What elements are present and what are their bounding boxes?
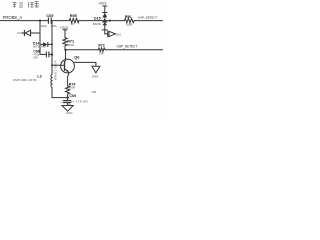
svg-text:CAP_DETECT: CAP_DETECT — [117, 44, 138, 48]
node clamp junction — [104, 19, 106, 21]
wire right vertical from C65 down — [51, 21, 53, 75]
svg-text:D13: D13 — [17, 31, 23, 35]
resistor R56 — [125, 19, 135, 23]
svg-text:C65: C65 — [46, 14, 53, 18]
svg-text:50V: 50V — [33, 56, 38, 60]
svg-text:R56: R56 — [125, 15, 132, 19]
capacitor C68 — [40, 52, 52, 57]
wire base of Q6 — [52, 64, 64, 66]
svg-text:MMBT3904: MMBT3904 — [53, 60, 57, 80]
svg-text:C0G: C0G — [51, 24, 57, 28]
capacitor C69 — [64, 98, 71, 106]
net flag — [105, 31, 116, 37]
ground right of Q6 — [92, 66, 100, 73]
node D14 cathode junction — [51, 43, 53, 45]
svg-text:100p: 100p — [41, 24, 48, 28]
svg-text:100n 16V X7R WS: 100n 16V X7R WS — [60, 99, 88, 103]
diode D16 lower clamp — [102, 22, 107, 34]
power +3V3 at R71 — [63, 30, 67, 38]
svg-text:R72: R72 — [98, 44, 104, 48]
wire vertical to D13/D14 — [39, 21, 41, 55]
wire collector node to R72 — [66, 49, 99, 51]
svg-text:+3V3: +3V3 — [98, 2, 106, 6]
diode D13 — [22, 30, 40, 36]
node base junction — [51, 64, 53, 66]
resistor R72 — [98, 48, 105, 52]
svg-text:PROBE_A: PROBE_A — [3, 15, 23, 20]
resistor R55 — [69, 18, 79, 22]
diode D15 upper clamp — [102, 13, 107, 21]
svg-text:910R: 910R — [67, 43, 74, 47]
svg-text:BAV99: BAV99 — [93, 22, 102, 26]
node C68 junction — [51, 54, 53, 56]
svg-text:+3V3: +3V3 — [60, 26, 68, 30]
svg-text:1K: 1K — [70, 22, 74, 26]
transistor Q6 — [61, 50, 75, 86]
svg-text:BAT54SWF: BAT54SWF — [33, 45, 47, 49]
resistor R74 — [66, 86, 70, 98]
svg-text:D16: D16 — [116, 33, 122, 37]
node junction at C65 left — [39, 20, 41, 22]
inductor L3 — [51, 74, 52, 87]
wire R72 to CAP_DETECT right edge — [105, 49, 162, 51]
wire R55 to clamp node — [79, 20, 125, 22]
label 汉字 note — [13, 2, 39, 8]
node second junction — [109, 20, 111, 22]
svg-text:200R: 200R — [69, 86, 75, 90]
wire main PROBE_A net — [0, 20, 48, 22]
resistor R71 — [63, 38, 67, 50]
capacitor C65 — [48, 18, 51, 24]
svg-text:100R: 100R — [126, 22, 133, 26]
svg-text:GND: GND — [66, 111, 72, 115]
svg-text:50V: 50V — [67, 103, 72, 106]
node emitter bottom junction — [66, 96, 68, 98]
svg-text:10K: 10K — [99, 52, 104, 56]
wire L3 bottom to emitter node — [52, 87, 68, 97]
svg-text:GND: GND — [92, 75, 98, 79]
svg-text:D15: D15 — [94, 17, 101, 21]
node collector junction — [64, 49, 66, 51]
svg-text:C69: C69 — [69, 94, 76, 98]
ground below C69 — [62, 106, 73, 112]
svg-text:CAP_DETECT: CAP_DETECT — [138, 16, 157, 20]
wire C65 to R55 — [51, 20, 69, 22]
wire Q6 right to GND — [74, 62, 96, 66]
wire R56 to CAP_DETECT edge — [134, 20, 162, 22]
svg-text:R55: R55 — [70, 14, 77, 18]
svg-text:Q6: Q6 — [74, 56, 79, 60]
power +3V3 clamp — [103, 6, 107, 12]
diode D14 — [40, 42, 52, 46]
svg-text:DMP-6MF-4R7M: DMP-6MF-4R7M — [13, 78, 37, 82]
svg-text:L3: L3 — [37, 75, 41, 79]
svg-text:11B: 11B — [91, 90, 96, 94]
